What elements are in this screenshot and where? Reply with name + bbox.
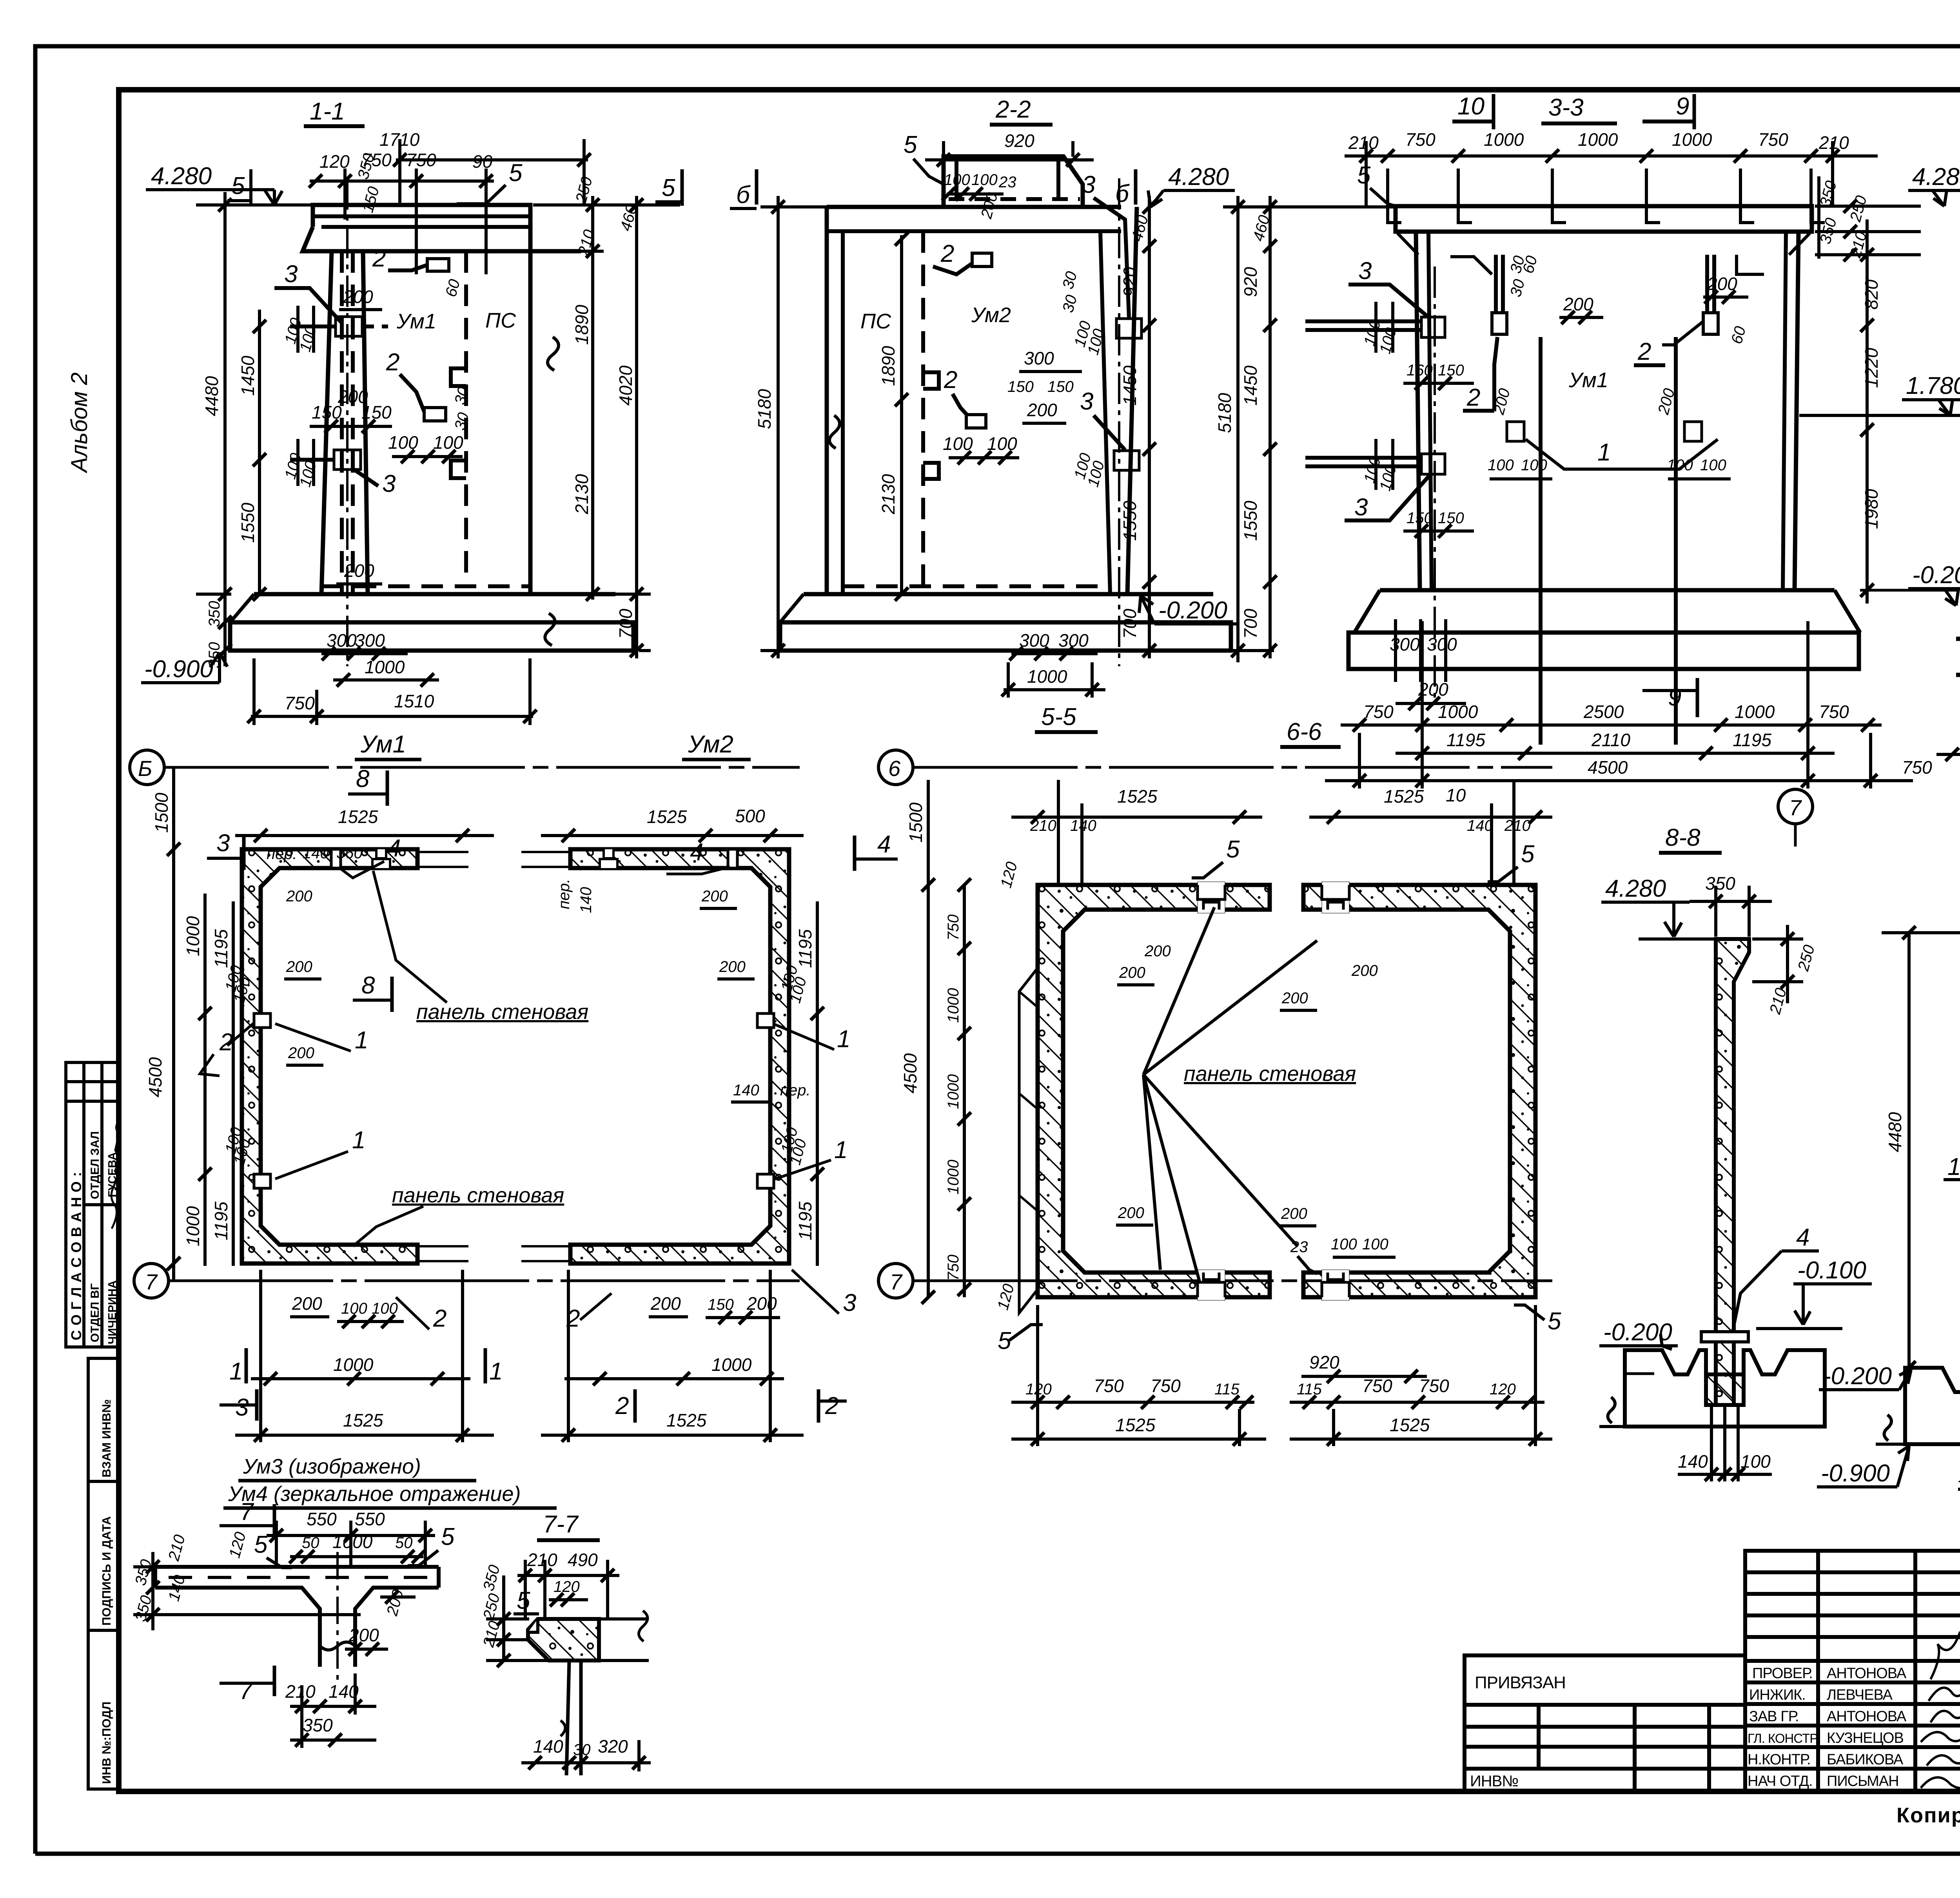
svg-text:Ум1: Ум1 xyxy=(360,731,406,758)
right dims 1195 xyxy=(816,901,819,1266)
svg-text:пер.: пер. xyxy=(555,879,573,909)
svg-text:200: 200 xyxy=(701,888,728,905)
main wall top band xyxy=(827,205,1121,209)
svg-text:750: 750 xyxy=(1819,702,1849,722)
stem break xyxy=(320,1642,355,1650)
svg-text:5: 5 xyxy=(517,1587,530,1614)
svg-text:5: 5 xyxy=(509,160,523,187)
svg-text:820: 820 xyxy=(1861,279,1882,310)
svg-text:140: 140 xyxy=(733,1082,759,1099)
svg-text:100: 100 xyxy=(1488,457,1514,474)
svg-text:ОТДЕЛ ЗАЛ: ОТДЕЛ ЗАЛ xyxy=(89,1131,102,1199)
svg-text:Ум1: Ум1 xyxy=(1568,368,1608,392)
right chain 820 1220 1980 xyxy=(1866,219,1869,604)
svg-text:ЛЕВЧЕВА: ЛЕВЧЕВА xyxy=(1827,1687,1893,1703)
svg-text:1195: 1195 xyxy=(795,929,815,968)
wall body xyxy=(1416,232,1420,590)
svg-text:750: 750 xyxy=(1362,1376,1392,1396)
svg-text:ПРОВЕР.: ПРОВЕР. xyxy=(1752,1665,1813,1682)
svg-text:200: 200 xyxy=(286,888,312,905)
svg-text:1195: 1195 xyxy=(795,1202,815,1240)
100 100 rotated upper xyxy=(296,306,299,353)
svg-text:200: 200 xyxy=(348,1625,379,1645)
svg-text:750: 750 xyxy=(1758,129,1788,150)
svg-text:2: 2 xyxy=(433,1305,446,1332)
svg-text:750: 750 xyxy=(406,150,436,170)
6-6 box wall hatched xyxy=(1303,885,1535,1297)
svg-text:ГЛ. КОНСТР: ГЛ. КОНСТР xyxy=(1748,1731,1818,1746)
panel notch upper xyxy=(451,368,466,386)
svg-text:300: 300 xyxy=(327,630,357,651)
svg-text:50: 50 xyxy=(302,1534,319,1552)
right slab dims 350 350 250 210 xyxy=(1817,176,1820,259)
svg-text:10: 10 xyxy=(1457,93,1485,120)
ПС dashed edge + notches xyxy=(921,231,925,586)
column centerline left xyxy=(1434,266,1436,702)
svg-text:1-1: 1-1 xyxy=(310,98,345,125)
svg-text:920: 920 xyxy=(1240,267,1261,297)
svg-text:9: 9 xyxy=(1668,684,1681,711)
svg-text:200: 200 xyxy=(650,1293,681,1314)
rebar lines into blocks xyxy=(1305,319,1421,323)
axis 7 circles top xyxy=(1778,789,1813,824)
svg-text:С О Г Л А С О В А Н О :: С О Г Л А С О В А Н О : xyxy=(68,1171,84,1340)
svg-text:б: б xyxy=(1115,180,1130,207)
svg-text:7: 7 xyxy=(240,1498,254,1525)
svg-text:200: 200 xyxy=(1144,943,1171,960)
ПС right wall line xyxy=(528,251,533,594)
svg-text:-0.200: -0.200 xyxy=(1912,562,1960,589)
svg-text:300: 300 xyxy=(1058,630,1089,651)
wall below xyxy=(566,1661,569,1775)
anchor block 3 lower xyxy=(1114,451,1139,470)
svg-text:панель стеновая: панель стеновая xyxy=(392,1184,564,1207)
svg-text:-0.200: -0.200 xyxy=(1823,1363,1892,1390)
step notch top-left xyxy=(528,1619,538,1632)
svg-text:700: 700 xyxy=(615,609,636,639)
chain 4500 xyxy=(1325,779,1913,782)
svg-text:200: 200 xyxy=(1119,964,1145,981)
svg-text:200: 200 xyxy=(286,958,312,975)
svg-text:1000: 1000 xyxy=(183,916,203,956)
panel bottom dashes xyxy=(321,584,530,588)
left dims xyxy=(927,780,930,1297)
svg-text:1550: 1550 xyxy=(1120,500,1140,541)
left dims xyxy=(172,767,175,1281)
svg-text:5: 5 xyxy=(662,174,675,201)
svg-text:140: 140 xyxy=(1958,1466,1960,1486)
signature squiggles in stamp xyxy=(111,1176,118,1229)
detail 2 upper xyxy=(427,259,449,271)
svg-text:350: 350 xyxy=(206,601,223,627)
svg-text:1: 1 xyxy=(834,1137,848,1164)
svg-text:1000: 1000 xyxy=(945,1160,962,1195)
svg-text:1: 1 xyxy=(1947,1153,1960,1180)
svg-text:-0.900: -0.900 xyxy=(144,656,213,683)
svg-text:140: 140 xyxy=(1467,817,1493,834)
left margin stamp: СОГЛАСОВАНО block xyxy=(66,1062,119,1347)
svg-text:210: 210 xyxy=(1348,132,1379,153)
hatched corbel block xyxy=(528,1619,599,1661)
svg-text:ЧИЧЕРИНА: ЧИЧЕРИНА xyxy=(106,1280,119,1344)
svg-text:1550: 1550 xyxy=(1240,500,1261,541)
svg-text:4500: 4500 xyxy=(900,1053,920,1093)
svg-text:Копировал: Коршунова: Копировал: Коршунова xyxy=(1896,1804,1960,1827)
svg-text:1525: 1525 xyxy=(1115,1415,1156,1435)
svg-text:2: 2 xyxy=(1466,384,1480,411)
svg-text:2: 2 xyxy=(372,245,386,272)
axis б circle + line xyxy=(878,750,913,785)
svg-text:1510: 1510 xyxy=(394,691,434,711)
svg-text:1525: 1525 xyxy=(1117,786,1158,807)
svg-text:7: 7 xyxy=(145,1269,158,1294)
svg-text:100: 100 xyxy=(1331,1236,1357,1253)
svg-text:300: 300 xyxy=(1024,348,1054,368)
svg-text:1195: 1195 xyxy=(211,929,231,968)
wavy break marks xyxy=(548,337,559,370)
svg-text:ПРИВЯЗАН: ПРИВЯЗАН xyxy=(1475,1673,1566,1692)
svg-text:490: 490 xyxy=(568,1550,598,1570)
svg-text:4: 4 xyxy=(387,835,401,862)
svg-text:2130: 2130 xyxy=(878,474,898,515)
svg-text:1500: 1500 xyxy=(151,792,172,833)
svg-text:1525: 1525 xyxy=(1390,1415,1430,1435)
svg-text:115: 115 xyxy=(1297,1381,1322,1398)
svg-text:1195: 1195 xyxy=(1733,730,1771,750)
svg-text:НАЧ ОТД.: НАЧ ОТД. xyxy=(1748,1773,1813,1789)
8-8 footing xyxy=(1599,1350,1825,1427)
panel bottom dashes xyxy=(843,584,1109,588)
svg-text:1: 1 xyxy=(352,1127,365,1154)
svg-text:ОТДЕЛ ВГ: ОТДЕЛ ВГ xyxy=(89,1283,102,1342)
chain 750 1000 2500 1000 750 xyxy=(1341,723,1882,727)
svg-text:200: 200 xyxy=(1281,1205,1307,1222)
8-8 wall xyxy=(1716,939,1749,1405)
svg-text:8-8: 8-8 xyxy=(1665,824,1700,851)
svg-text:2: 2 xyxy=(944,366,957,393)
svg-text:3: 3 xyxy=(216,830,230,857)
svg-text:3: 3 xyxy=(1080,388,1093,415)
svg-text:750: 750 xyxy=(1363,702,1394,722)
svg-text:ПИСЬМАН: ПИСЬМАН xyxy=(1827,1773,1899,1789)
footing dims 300 300 xyxy=(1394,619,1397,682)
svg-text:150: 150 xyxy=(1406,509,1433,527)
svg-text:1000: 1000 xyxy=(183,1206,203,1246)
svg-text:100: 100 xyxy=(1667,457,1693,474)
svg-text:5180: 5180 xyxy=(1214,393,1235,433)
svg-text:Ум2: Ум2 xyxy=(971,303,1011,327)
top slab outline xyxy=(313,205,530,251)
svg-text:1000: 1000 xyxy=(945,1074,962,1109)
svg-text:Ум4 (зеркальное отражение): Ум4 (зеркальное отражение) xyxy=(228,1482,521,1506)
svg-text:4: 4 xyxy=(877,831,891,858)
center dashes xyxy=(169,1576,427,1579)
svg-text:100: 100 xyxy=(1700,457,1726,474)
svg-text:АНТОНОВА: АНТОНОВА xyxy=(1827,1665,1907,1682)
svg-text:ПОДПИСЬ И ДАТА: ПОДПИСЬ И ДАТА xyxy=(100,1516,113,1626)
svg-text:панель стеновая: панель стеновая xyxy=(416,1000,588,1024)
svg-text:750: 750 xyxy=(285,693,315,713)
svg-text:2110: 2110 xyxy=(1591,730,1630,750)
svg-text:ПС: ПС xyxy=(860,310,891,333)
svg-text:6: 6 xyxy=(888,756,901,781)
svg-text:750: 750 xyxy=(1094,1376,1124,1396)
left dim line 4480 xyxy=(223,192,227,666)
svg-text:б: б xyxy=(736,181,751,208)
svg-text:5: 5 xyxy=(254,1531,268,1558)
svg-text:8: 8 xyxy=(361,972,375,999)
chain 750 1000x3 750 xyxy=(963,885,966,1297)
svg-text:2: 2 xyxy=(825,1392,838,1419)
svg-text:панель стеновая: панель стеновая xyxy=(1184,1062,1356,1086)
anchor block 3 upper xyxy=(1116,319,1142,338)
svg-text:920: 920 xyxy=(1309,1352,1339,1372)
svg-text:5: 5 xyxy=(1521,841,1535,868)
svg-text:115: 115 xyxy=(1214,1381,1240,1398)
partition thin continuation top xyxy=(417,852,468,1261)
svg-text:200: 200 xyxy=(1027,400,1057,420)
top slab xyxy=(1396,206,1812,232)
left dim line 1450/1550 xyxy=(258,310,261,596)
svg-text:5: 5 xyxy=(904,131,917,158)
svg-text:210: 210 xyxy=(527,1550,557,1570)
svg-text:1000: 1000 xyxy=(332,1532,373,1552)
left wall edge xyxy=(825,207,829,594)
svg-text:3: 3 xyxy=(382,470,396,497)
svg-text:1525: 1525 xyxy=(338,807,378,827)
outside parallelogram strip xyxy=(1019,968,1038,1313)
upper detail 2 left xyxy=(1492,313,1507,334)
100 100 rotated lower xyxy=(296,439,299,486)
svg-text:1000: 1000 xyxy=(1578,129,1618,150)
upper detail 2 right xyxy=(1703,313,1718,334)
svg-text:100: 100 xyxy=(1362,1236,1388,1253)
svg-text:1000: 1000 xyxy=(945,988,962,1023)
svg-text:пер.: пер. xyxy=(267,845,297,863)
right chain 460 920 1450 1550 700 xyxy=(1148,196,1151,658)
top wall joint slot xyxy=(1198,882,1225,913)
top slab block end view xyxy=(944,156,1083,207)
svg-text:750: 750 xyxy=(1151,1376,1181,1396)
svg-text:1000: 1000 xyxy=(1484,129,1524,150)
svg-text:4480: 4480 xyxy=(201,376,222,416)
dims 250 210 xyxy=(1752,937,1803,941)
joint symbol top left xyxy=(604,849,613,858)
svg-text:4.280: 4.280 xyxy=(1605,875,1666,902)
svg-text:1525: 1525 xyxy=(343,1410,383,1430)
inner anchor verticals xyxy=(1539,337,1543,745)
T-plan outline xyxy=(155,1567,439,1667)
svg-text:100: 100 xyxy=(944,171,970,189)
svg-text:7: 7 xyxy=(890,1269,903,1294)
left dim 4480 xyxy=(1907,933,1911,1368)
svg-text:1: 1 xyxy=(229,1358,243,1385)
svg-text:5: 5 xyxy=(1548,1308,1561,1335)
svg-text:3-3: 3-3 xyxy=(1548,94,1584,121)
svg-text:-0.900: -0.900 xyxy=(1821,1460,1890,1487)
svg-text:140: 140 xyxy=(1678,1451,1708,1472)
svg-text:2130: 2130 xyxy=(572,474,592,515)
rebar hooks in slab xyxy=(1388,169,1825,223)
joint symbol in top wall xyxy=(376,849,386,858)
6-6 top wall joint slot xyxy=(1322,882,1349,913)
right tapered column xyxy=(1100,231,1110,594)
svg-text:140: 140 xyxy=(533,1736,563,1757)
svg-text:7-7: 7-7 xyxy=(543,1511,579,1538)
svg-text:4: 4 xyxy=(690,839,703,866)
svg-text:1550: 1550 xyxy=(238,502,258,543)
svg-text:1: 1 xyxy=(837,1026,850,1053)
svg-text:1195: 1195 xyxy=(211,1202,231,1240)
svg-text:200: 200 xyxy=(1281,990,1308,1007)
svg-text:550: 550 xyxy=(355,1509,385,1529)
svg-text:2: 2 xyxy=(940,240,954,267)
svg-text:160: 160 xyxy=(1406,362,1433,379)
svg-text:ИНВ№: ИНВ№ xyxy=(1470,1773,1518,1790)
svg-text:200: 200 xyxy=(292,1293,322,1314)
svg-text:1: 1 xyxy=(489,1358,503,1385)
svg-text:360: 360 xyxy=(336,845,363,862)
3-3 left dim chains xyxy=(1214,196,1396,662)
svg-text:100: 100 xyxy=(987,433,1017,454)
svg-text:ВЗАМ ИНВ№: ВЗАМ ИНВ№ xyxy=(100,1399,113,1477)
svg-text:3: 3 xyxy=(235,1394,249,1421)
svg-text:ПС: ПС xyxy=(485,309,516,332)
svg-text:1000: 1000 xyxy=(1735,702,1775,722)
V tie line detail 1 xyxy=(1526,439,1718,469)
svg-text:5: 5 xyxy=(441,1523,455,1550)
svg-text:920: 920 xyxy=(1004,131,1034,151)
svg-text:7: 7 xyxy=(1789,795,1802,820)
svg-text:2: 2 xyxy=(566,1305,580,1332)
svg-text:Б: Б xyxy=(138,756,152,781)
column centerline xyxy=(346,178,348,666)
svg-text:3: 3 xyxy=(1354,494,1368,521)
left margin stamp: inventory boxes xyxy=(88,1358,119,1789)
3-3 footing xyxy=(1380,588,1835,593)
svg-text:5: 5 xyxy=(231,172,245,199)
svg-text:210: 210 xyxy=(1504,817,1531,834)
svg-text:5: 5 xyxy=(998,1327,1011,1354)
svg-text:4: 4 xyxy=(1796,1224,1809,1251)
svg-text:300: 300 xyxy=(1390,634,1420,654)
svg-text:50: 50 xyxy=(395,1534,413,1552)
svg-text:200: 200 xyxy=(1118,1204,1144,1222)
svg-text:200: 200 xyxy=(344,560,374,581)
Ум1 wall body hatched xyxy=(242,849,417,1264)
svg-text:4020: 4020 xyxy=(615,365,636,406)
svg-text:БАБИКОВА: БАБИКОВА xyxy=(1827,1751,1904,1768)
svg-text:750: 750 xyxy=(1405,129,1436,150)
svg-text:2: 2 xyxy=(1637,338,1651,365)
svg-text:750: 750 xyxy=(1902,757,1932,778)
bottom dims 140 100 xyxy=(1710,1407,1713,1481)
svg-text:1000: 1000 xyxy=(1438,702,1478,722)
svg-text:1195: 1195 xyxy=(1446,730,1485,750)
svg-text:140: 140 xyxy=(577,887,595,913)
svg-text:920: 920 xyxy=(1120,267,1140,297)
svg-text:100: 100 xyxy=(971,171,998,189)
svg-text:100: 100 xyxy=(433,432,463,453)
svg-text:2500: 2500 xyxy=(1583,702,1624,722)
break mark left xyxy=(829,415,840,448)
anchor block 3 lower xyxy=(290,450,361,470)
svg-text:1000: 1000 xyxy=(333,1354,374,1375)
svg-text:3: 3 xyxy=(1358,257,1372,285)
svg-text:200: 200 xyxy=(719,958,746,975)
svg-text:5: 5 xyxy=(1226,836,1240,863)
svg-text:1: 1 xyxy=(1597,439,1611,466)
detail 4 insert in top wall xyxy=(331,849,341,868)
100 100 pairs left wall xyxy=(1374,302,1377,353)
joint detail left wall upper xyxy=(254,1013,270,1028)
svg-text:5180: 5180 xyxy=(754,389,775,429)
svg-text:100: 100 xyxy=(943,433,973,454)
svg-text:4.280: 4.280 xyxy=(1168,163,1229,190)
svg-text:100: 100 xyxy=(1521,457,1547,474)
slab bottom shelf xyxy=(303,227,581,251)
top dim chain xyxy=(1345,154,1878,158)
tapered column left edge xyxy=(321,251,332,594)
svg-text:-0.100: -0.100 xyxy=(1797,1257,1866,1284)
ПС panel dashed edge xyxy=(464,251,468,586)
inner dims 1890 2130 xyxy=(900,235,903,594)
footing xyxy=(804,592,1213,596)
axis 7 circle + line xyxy=(878,1264,913,1298)
1-1 dimensions xyxy=(141,129,682,760)
svg-text:2: 2 xyxy=(615,1392,629,1419)
svg-text:150: 150 xyxy=(1007,378,1034,395)
svg-text:750: 750 xyxy=(945,914,962,941)
detail 2 upper xyxy=(972,253,992,266)
svg-text:500: 500 xyxy=(735,806,765,826)
svg-text:750: 750 xyxy=(1419,1376,1449,1396)
svg-text:10: 10 xyxy=(1446,785,1466,805)
svg-text:1450: 1450 xyxy=(1240,365,1261,406)
panel notch lower xyxy=(451,460,466,478)
svg-text:1220: 1220 xyxy=(1861,348,1882,388)
bottom wall joint slot xyxy=(1198,1270,1225,1300)
svg-text:200: 200 xyxy=(343,286,373,307)
svg-text:1000: 1000 xyxy=(1672,129,1712,150)
svg-text:200: 200 xyxy=(1351,962,1378,979)
svg-text:1000: 1000 xyxy=(365,657,405,677)
svg-text:200: 200 xyxy=(288,1044,314,1062)
svg-text:5-5: 5-5 xyxy=(1041,703,1076,731)
detail 2 lower xyxy=(424,408,446,421)
svg-text:КУЗНЕЦОВ: КУЗНЕЦОВ xyxy=(1827,1730,1904,1746)
svg-text:ИНВ №:ПОДЛ: ИНВ №:ПОДЛ xyxy=(100,1702,113,1784)
thin continuation left xyxy=(521,852,570,1261)
svg-text:120: 120 xyxy=(554,1578,580,1595)
svg-text:700: 700 xyxy=(1240,609,1261,639)
svg-text:1000: 1000 xyxy=(1027,666,1067,687)
joint detail left wall lower xyxy=(254,1174,270,1188)
svg-text:140: 140 xyxy=(303,845,329,862)
svg-text:150: 150 xyxy=(361,402,392,422)
svg-text:1525: 1525 xyxy=(666,1410,707,1430)
svg-text:4.280: 4.280 xyxy=(1912,163,1960,190)
Ум2 wall body hatched xyxy=(570,849,789,1264)
svg-text:1450: 1450 xyxy=(238,355,258,396)
column right solid edge xyxy=(363,251,368,594)
svg-text:90: 90 xyxy=(472,151,493,172)
svg-text:120: 120 xyxy=(1490,1381,1516,1398)
detail 4 plate xyxy=(1701,1332,1748,1342)
svg-text:4500: 4500 xyxy=(1588,757,1628,778)
svg-text:7: 7 xyxy=(239,1677,254,1704)
svg-text:ЗАВ ГР.: ЗАВ ГР. xyxy=(1749,1708,1799,1725)
